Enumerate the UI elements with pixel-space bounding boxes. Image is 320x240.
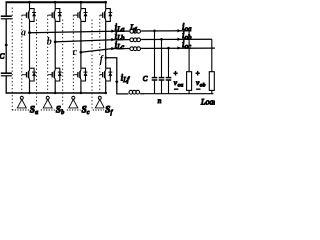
IGBT S4' gate bar [102, 72, 104, 77]
filter inductor on phase c [130, 47, 134, 51]
gate signal label Sf backing [104, 105, 115, 115]
gate bus (dashed) leg 1 [21, 15, 23, 96]
node a dot [28, 31, 31, 34]
IGBT S4' collector/emitter leads [104, 68, 107, 81]
IGBT S3 gate lead [73, 14, 78, 16]
emitter wire to rail leg 1 [29, 81, 31, 94]
filter capacitor Ca bottom wire [154, 80, 156, 94]
IGBT S2 gate bar [51, 12, 53, 17]
dotted enclosure bottom border [12, 109, 104, 111]
svg-text:oc: oc [185, 43, 191, 50]
DC-link capacitor upper plates [1, 15, 12, 17]
IGBT S2' top connector and diode branch [55, 68, 60, 81]
diode of S1 (cathode bar) [32, 12, 36, 14]
IGBT S2' gate lead [48, 74, 53, 76]
gate bus (dashed) leg 2 [47, 15, 49, 96]
junction dot on top rail leg 2 [54, 1, 57, 4]
junction dot on bottom rail leg 2 [54, 92, 56, 94]
output current arrow ioa [177, 29, 181, 32]
diode of S2 (triangle) [58, 13, 62, 17]
IGBT S3 collector/emitter leads [79, 9, 82, 22]
IGBT S4 top connector and diode branch [106, 9, 111, 22]
filter capacitor Cc plates [166, 77, 172, 79]
collector stub from rail leg 4 [105, 2, 107, 9]
driver 1 circle [20, 96, 23, 99]
IGBT S1' gate bar [26, 72, 28, 77]
IGBT S4' top connector and diode branch [106, 68, 111, 81]
midpoint wire leg 4 [105, 21, 107, 68]
IGBT S2 collector/emitter leads [53, 9, 56, 22]
svg-text:b: b [47, 37, 52, 48]
load resistor box b [209, 72, 214, 91]
svg-text:Lc: Lc [116, 44, 124, 51]
filter inductor on phase a [130, 29, 134, 33]
svg-text:C: C [143, 75, 148, 83]
svg-text:c: c [87, 110, 90, 116]
diode of S4 (cathode bar) [108, 12, 112, 14]
IGBT S2' gate bar [51, 72, 53, 77]
driver 2 circle [46, 96, 49, 99]
load branch b tap wire [211, 39, 213, 71]
collector stub from rail leg 2 [54, 2, 56, 9]
IGBT S3' collector/emitter leads [79, 68, 82, 81]
diode of S4 (triangle) [108, 13, 112, 17]
collector stub from rail leg 1 [29, 2, 31, 9]
svg-text:c: c [73, 47, 78, 58]
diode of S2' (cathode bar) [58, 71, 62, 73]
junction dot on bottom rail leg 4 [105, 92, 107, 94]
driver 4 triangle [95, 100, 104, 108]
node b dot [54, 41, 57, 44]
diode of S1' (triangle) [32, 72, 36, 76]
IGBT S2' collector/emitter leads [53, 68, 56, 81]
svg-text:C: C [0, 52, 5, 61]
gate signal label Sb backing [55, 105, 66, 115]
filter capacitor Ca tap wire [154, 31, 156, 78]
junction dot on top rail leg 3 [80, 1, 83, 4]
svg-text:La: La [116, 27, 125, 34]
diode of S3 (triangle) [84, 13, 88, 17]
IGBT S3' channel bar [79, 71, 81, 78]
gate signal label Sc backing [81, 105, 92, 115]
DC-link wire lower [5, 76, 7, 94]
DC-link wire upper [5, 2, 7, 16]
driver 3 circle [72, 96, 75, 99]
filter capacitor Cb tap wire [161, 39, 163, 77]
filter inductor on phase b [130, 38, 134, 42]
current arrow iLa [111, 30, 115, 33]
junction dot on phase a line [153, 30, 156, 33]
svg-text:+: + [196, 71, 200, 78]
load resistor box a [187, 72, 192, 91]
junction dot on phase c line [167, 47, 170, 50]
filter inductor on phase f [129, 90, 133, 94]
output current arrow iob [177, 38, 181, 41]
wire phase f [106, 58, 144, 94]
diode of S1' (cathode bar) [32, 71, 36, 73]
IGBT S4 gate bar [102, 12, 104, 17]
DC-link midpoint junction dot [5, 44, 8, 47]
emitter wire to rail leg 3 [80, 81, 82, 94]
svg-text:n: n [158, 96, 162, 105]
current arrow iLb [111, 38, 115, 41]
svg-text:ob: ob [200, 82, 206, 88]
IGBT S1 channel bar [28, 12, 30, 19]
IGBT S1 collector/emitter leads [28, 9, 31, 22]
diode of S2' (triangle) [58, 72, 62, 76]
junction dot on phase b line [160, 38, 163, 41]
wire phase b [55, 39, 212, 42]
junction dot on top rail leg 4 [104, 1, 107, 4]
IGBT S3' top connector and diode branch [81, 68, 86, 81]
IGBT S4 collector/emitter leads [104, 9, 107, 22]
right dashed line leg 1 [36, 20, 38, 110]
IGBT S2 channel bar [53, 12, 55, 19]
collector stub from rail leg 3 [80, 2, 82, 9]
IGBT S3' gate lead [73, 74, 78, 76]
load branch a tap wire [188, 31, 190, 72]
IGBT S1 gate lead [22, 14, 27, 16]
IGBT S1' collector/emitter leads [28, 68, 31, 81]
svg-text:oa: oa [178, 82, 184, 88]
midpoint wire leg 2 [54, 21, 56, 68]
diode of S3' (cathode bar) [84, 71, 88, 73]
svg-text:a: a [21, 28, 26, 39]
IGBT S4' channel bar [104, 71, 106, 78]
diode of S3' (triangle) [84, 72, 88, 76]
svg-text:oa: oa [185, 26, 192, 33]
svg-text:Lf: Lf [122, 77, 130, 84]
node c dot [80, 51, 83, 54]
IGBT S1' gate lead [22, 74, 27, 76]
IGBT S4' gate lead [100, 74, 103, 76]
DC-link wire middle [5, 19, 7, 73]
right dashed line leg 3 [91, 20, 93, 110]
midpoint wire leg 1 [29, 21, 31, 68]
svg-text:b: b [61, 110, 64, 116]
svg-text:Lb: Lb [116, 35, 125, 42]
node f label backing [99, 55, 105, 65]
filter capacitor Cc tap wire [168, 48, 170, 78]
wire phase a [30, 31, 190, 33]
IGBT S3 channel bar [79, 12, 81, 19]
junction dot on top rail leg 1 [28, 1, 31, 4]
svg-text:ob: ob [185, 35, 192, 42]
filter capacitor Cb bottom wire [161, 80, 163, 94]
svg-text:−: − [196, 86, 200, 94]
right dashed line leg 2 [62, 20, 64, 110]
junction dot on bottom rail leg 1 [28, 92, 30, 94]
diode of S4' (triangle) [108, 72, 112, 76]
output current arrow ioc [177, 46, 181, 49]
driver 3 triangle [69, 100, 78, 108]
diode of S1 (triangle) [32, 13, 36, 17]
IGBT S1' channel bar [28, 71, 30, 78]
svg-text:Load: Load [200, 97, 215, 106]
midpoint wire leg 3 [80, 21, 82, 68]
driver 1 triangle [17, 100, 26, 108]
IGBT S2' channel bar [53, 71, 55, 78]
top DC rail [6, 1, 107, 3]
svg-text:+: + [174, 71, 178, 78]
current arrow iLc [111, 47, 115, 50]
diode of S2 (cathode bar) [58, 12, 62, 14]
IGBT S4 channel bar [104, 12, 106, 19]
IGBT S3' gate bar [77, 72, 79, 77]
diode of S3 (cathode bar) [84, 12, 88, 14]
IGBT S2 top connector and diode branch [55, 9, 60, 22]
gate bus (dashed) leg 4 [99, 15, 101, 96]
gate bus (dashed) leg 3 [72, 15, 74, 96]
filter capacitor Cc bottom wire [168, 80, 170, 94]
IGBT S1' top connector and diode branch [30, 68, 35, 81]
svg-text:−: − [174, 86, 178, 94]
driver 4 circle [98, 96, 101, 99]
IGBT S3 top connector and diode branch [81, 9, 86, 22]
dotted enclosure left border [11, 8, 13, 111]
emitter wire to rail leg 4 [105, 81, 107, 94]
neutral rail n [143, 93, 214, 95]
node f dot [105, 57, 107, 59]
load branch b bottom wire [211, 90, 213, 93]
current arrow iLf (down) [115, 81, 118, 85]
load branch a bottom wire [188, 90, 190, 93]
IGBT S3 gate bar [77, 12, 79, 17]
IGBT S1 top connector and diode branch [30, 9, 35, 22]
IGBT S2 gate lead [48, 14, 53, 16]
diode of S4' (cathode bar) [108, 71, 112, 73]
filter capacitor Ca plates [152, 77, 158, 79]
filter capacitor Cb plates [159, 77, 165, 79]
emitter wire to rail leg 2 [54, 81, 56, 94]
IGBT S1 gate bar [26, 12, 28, 17]
bottom DC rail [6, 92, 108, 94]
junction dot on bottom rail leg 3 [80, 92, 82, 94]
DC-link capacitor lower plates [1, 72, 12, 74]
wire phase c [81, 48, 216, 52]
IGBT S4 gate lead [100, 14, 103, 16]
svg-text:a: a [35, 110, 38, 116]
gate signal label Sa backing [29, 105, 40, 115]
driver 2 triangle [43, 100, 52, 108]
